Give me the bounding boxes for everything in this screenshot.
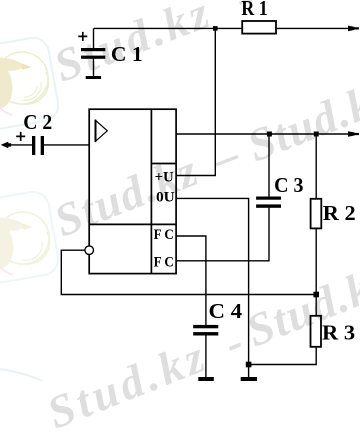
svg-text:F C: F C bbox=[154, 227, 174, 243]
svg-text:R 2: R 2 bbox=[323, 201, 356, 225]
svg-text:C 2: C 2 bbox=[23, 110, 52, 134]
svg-text:R 3: R 3 bbox=[322, 320, 355, 344]
svg-text:F C: F C bbox=[154, 254, 174, 270]
svg-text:C 3: C 3 bbox=[274, 173, 304, 197]
svg-text:C 1: C 1 bbox=[111, 42, 143, 66]
svg-text:0U: 0U bbox=[156, 189, 175, 205]
svg-text:R 1: R 1 bbox=[241, 0, 268, 20]
svg-text:C 4: C 4 bbox=[209, 299, 243, 323]
svg-text:+U: +U bbox=[155, 169, 174, 185]
